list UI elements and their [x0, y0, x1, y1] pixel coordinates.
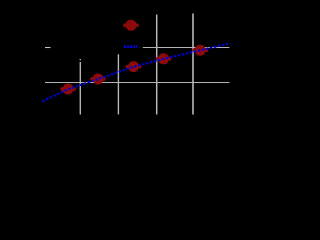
horizontal gridline y=47 left stub (tick) [45, 47, 51, 48]
data marker M5 [193, 45, 208, 56]
data marker M3 [126, 61, 141, 72]
data marker M1 (circle + x-error bar) [60, 84, 75, 95]
horizontal gridline y=82 [45, 82, 230, 84]
vertical gridline x=193 [192, 14, 194, 115]
vertical gridline x=156 [156, 15, 158, 115]
vertical gridline x=80 (visible dot through label hole) [79, 59, 81, 60]
outlier marker Nixon point [123, 20, 138, 31]
vertical gridline x=118 [117, 54, 119, 114]
horizontal gridline y=47 right segment [143, 47, 229, 49]
data marker M4 [156, 53, 171, 64]
data marker M2 [90, 74, 105, 85]
blue label 'Nixon' under outlier [124, 45, 138, 48]
vertical gridline x=80 lower segment [79, 62, 81, 115]
blue dashed trend polyline [42, 43, 230, 101]
